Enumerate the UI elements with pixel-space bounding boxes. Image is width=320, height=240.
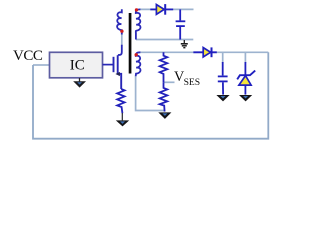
wire cap C2 top branch xyxy=(222,52,224,63)
wire cap C1 return (node at y=39.5) xyxy=(136,39,193,41)
ground arrow under R3 xyxy=(116,113,129,126)
ground arrow under C2 xyxy=(216,95,229,101)
primary polarity dot xyxy=(120,30,123,33)
zener diode DZ xyxy=(237,62,255,95)
earth ground under C1 xyxy=(181,40,188,48)
ground arrow under IC xyxy=(73,78,86,88)
resistor R1 (upper divider) xyxy=(160,52,168,82)
transformer secondary winding xyxy=(136,9,141,39)
wire output rail after D2 xyxy=(217,51,269,53)
transformer auxiliary winding xyxy=(136,52,141,76)
svg-text:IC: IC xyxy=(70,58,85,74)
auxiliary polarity dot xyxy=(135,53,138,56)
svg-text:SES: SES xyxy=(184,77,201,88)
wire outer feedback loop (left, bottom, right edges) xyxy=(33,52,268,138)
diode D1 xyxy=(150,4,173,15)
IC U1 box xyxy=(50,52,103,78)
secondary polarity dot xyxy=(135,8,138,11)
resistor R2 (lower divider) xyxy=(160,82,168,111)
wire aux bottom return xyxy=(136,76,165,111)
capacitor C2 (output) xyxy=(218,62,228,95)
transistor Q1 source arrowhead xyxy=(115,72,120,76)
wire Vses tap xyxy=(164,81,175,83)
wire secondary top to diode D1 xyxy=(140,8,194,10)
svg-text:VCC: VCC xyxy=(13,48,43,64)
diode D2 xyxy=(193,47,217,57)
wire zener top branch xyxy=(244,52,246,63)
wire aux winding to diode D2 xyxy=(140,51,193,53)
transformer primary winding xyxy=(117,9,122,31)
transistor Q1 (MOSFET) xyxy=(114,55,122,89)
ground arrow under zener xyxy=(239,95,252,101)
wire primary bottom to drain (net section) xyxy=(121,34,123,46)
wire VCC to IC xyxy=(33,64,50,66)
transistor Q1 gate wire from IC xyxy=(103,64,114,66)
capacitor C1 xyxy=(176,9,186,39)
transformer core xyxy=(129,13,132,74)
ground arrow under divider xyxy=(158,112,171,119)
resistor R3 (source sense) xyxy=(117,89,124,113)
wire primary bottom to drain xyxy=(118,33,122,55)
